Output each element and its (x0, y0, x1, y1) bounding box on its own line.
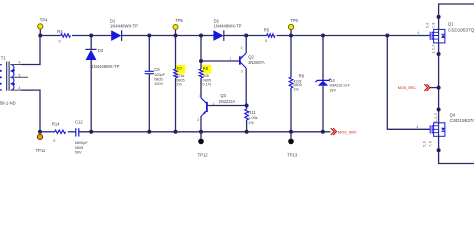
diode D3 (85, 36, 119, 132)
node TP5/R7 branch (174, 34, 178, 38)
node R8/Q2 base junction (199, 59, 203, 63)
svg-text:0: 0 (59, 40, 61, 44)
svg-text:MOS_SRC: MOS_SRC (338, 129, 357, 134)
wire top rail seg5 (277, 35, 430, 37)
svg-text:1N4448WX-TP: 1N4448WX-TP (110, 24, 138, 29)
svg-text:7, 8: 7, 8 (429, 141, 433, 147)
wire Q4 source down and out (439, 136, 474, 163)
port MOS_SRC right (398, 84, 438, 91)
svg-text:100pF: 100pF (154, 73, 165, 77)
svg-text:D3: D3 (98, 48, 104, 53)
node Q4 drain pins (437, 108, 441, 112)
svg-text:TP4: TP4 (40, 17, 48, 22)
svg-text:1, 2, 3: 1, 2, 3 (432, 45, 436, 54)
transistor Q2 (230, 36, 265, 106)
node Q2 emitter branch (244, 34, 248, 38)
wire bottom rail seg2 (68, 131, 75, 133)
resistor R8 (199, 36, 212, 98)
test point TP6 (288, 18, 298, 36)
node MOS_SRC tap (437, 86, 441, 90)
zener diode D4 (315, 36, 350, 132)
node C9 branch (147, 34, 151, 38)
diode D1 (110, 19, 138, 41)
svg-text:2: 2 (199, 93, 201, 97)
node TP6/R9 branch (289, 34, 293, 38)
bottom rail: junction TP11 (38, 130, 42, 134)
transformer T1 (0, 56, 28, 106)
wire bottom rail seg3 (79, 131, 330, 133)
node Q1 drain pins (437, 15, 441, 19)
svg-text:6: 6 (19, 61, 21, 65)
svg-text:0: 0 (53, 139, 55, 143)
svg-text:1.00k: 1.00k (248, 116, 257, 120)
node C9 bottom (147, 130, 151, 134)
resistor R9 (289, 36, 304, 132)
svg-text:4: 4 (417, 31, 419, 35)
test point TP12 (198, 132, 209, 158)
node gate branch (385, 34, 389, 38)
svg-text:1N4448WX-TP: 1N4448WX-TP (214, 24, 242, 29)
svg-text:C9: C9 (154, 67, 160, 72)
svg-text:SMAZ18-13-F: SMAZ18-13-F (329, 84, 350, 88)
svg-text:C12: C12 (75, 119, 83, 124)
svg-text:5, 6: 5, 6 (426, 23, 430, 29)
resistor R4 (57, 29, 70, 44)
node Q1 source pins (437, 52, 441, 56)
svg-text:R7: R7 (177, 66, 183, 71)
svg-text:TP6: TP6 (290, 18, 298, 23)
svg-text:TP12: TP12 (198, 152, 209, 157)
svg-text:1%: 1% (293, 88, 299, 92)
svg-text:458-1-ND: 458-1-ND (0, 101, 16, 106)
svg-text:R9: R9 (299, 73, 305, 78)
svg-text:0805: 0805 (154, 77, 162, 81)
svg-text:CSD19537Q3: CSD19537Q3 (448, 27, 474, 32)
node D4 bottom (321, 130, 325, 134)
svg-text:R4: R4 (57, 29, 63, 34)
test point TP13 (287, 132, 298, 158)
wire top rail seg2 (72, 35, 111, 37)
diode D2 (213, 19, 241, 41)
wire top rail seg4 (224, 35, 267, 37)
svg-text:Q1: Q1 (448, 22, 454, 27)
svg-text:1, 2, 3: 1, 2, 3 (434, 113, 438, 122)
wire top rail seg1 (40, 35, 61, 37)
wire top rail seg3 (122, 35, 214, 37)
test point TP4 (38, 17, 48, 35)
node R11 bottom (245, 130, 249, 134)
svg-text:5600pF: 5600pF (75, 141, 89, 145)
resistor R5 (264, 27, 275, 43)
node D4 branch (321, 34, 325, 38)
resistor R11 (245, 106, 258, 132)
svg-text:R5: R5 (264, 27, 270, 32)
svg-text:R8: R8 (203, 66, 209, 71)
node Q4 source pins (437, 148, 441, 152)
svg-text:2N2222A: 2N2222A (219, 99, 236, 104)
transistor Q3 (197, 93, 246, 132)
port MOS_SRC bottom (331, 128, 357, 135)
node top rail junction TP4 (38, 34, 42, 38)
svg-text:Q4: Q4 (450, 113, 456, 118)
resistor R14 (52, 121, 66, 143)
svg-text:TP11: TP11 (36, 148, 46, 153)
capacitor C9 (145, 36, 166, 132)
svg-text:3: 3 (197, 118, 199, 122)
svg-text:2: 2 (241, 70, 243, 74)
svg-text:0805: 0805 (293, 83, 301, 87)
node R8 branch (199, 34, 203, 38)
svg-text:0805: 0805 (75, 146, 83, 150)
mosfet Q1 (417, 22, 474, 54)
svg-text:2N2907A: 2N2907A (248, 60, 265, 65)
node Q3 emitter bottom / TP12 (199, 130, 203, 134)
mosfet Q4 (416, 113, 474, 147)
svg-text:T1: T1 (1, 56, 7, 61)
svg-text:R11: R11 (248, 110, 256, 115)
wire Q2 base (201, 60, 240, 62)
svg-text:3: 3 (241, 46, 243, 50)
svg-text:TP13: TP13 (287, 152, 298, 157)
svg-text:TP5: TP5 (175, 18, 183, 23)
svg-text:CSD19537Q3: CSD19537Q3 (450, 118, 474, 123)
wire Q1 source to Q4 drain (438, 43, 440, 123)
wire bottom rail seg1 (40, 131, 55, 133)
svg-text:0.1%: 0.1% (203, 83, 212, 87)
svg-text:1N4448WX-TP: 1N4448WX-TP (91, 64, 119, 69)
node Q3 base / R11 junction (245, 104, 249, 108)
svg-text:4: 4 (19, 86, 21, 90)
capacitor C12 (75, 119, 89, 154)
node D3 bottom (89, 130, 93, 134)
wire pin6 to TP4 column (21, 36, 40, 65)
svg-text:100V: 100V (154, 82, 163, 86)
test point TP5 (173, 18, 184, 36)
svg-text:18V: 18V (329, 89, 336, 93)
node R9 bottom / TP13 (289, 130, 293, 134)
svg-text:1: 1 (230, 56, 232, 60)
svg-text:MOS_SRC: MOS_SRC (398, 85, 416, 90)
svg-text:Q2: Q2 (248, 55, 254, 60)
svg-text:1%: 1% (176, 83, 182, 87)
wire pin4 down to TP11 junction (21, 90, 40, 132)
svg-text:5, 6: 5, 6 (423, 141, 427, 147)
svg-text:4: 4 (416, 125, 418, 129)
svg-text:R14: R14 (52, 121, 60, 126)
node R7 bottom (174, 130, 178, 134)
svg-text:1%: 1% (248, 121, 254, 125)
node D3 branch (89, 34, 93, 38)
svg-text:7, 8: 7, 8 (432, 23, 436, 29)
svg-text:0: 0 (265, 39, 267, 43)
svg-text:50V: 50V (75, 151, 82, 155)
svg-text:5: 5 (19, 73, 21, 77)
resistor R7 (174, 36, 186, 132)
test point TP11 (36, 134, 46, 153)
svg-text:Q3: Q3 (220, 93, 226, 98)
wire Q1 drain up and out (439, 4, 474, 29)
wire gate branch down to Q4 (387, 36, 430, 130)
